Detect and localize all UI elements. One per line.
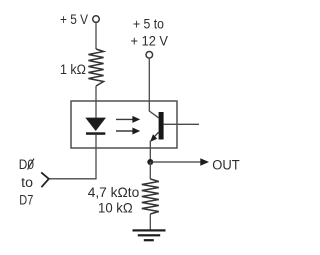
wire R1 to LED anode bbox=[95, 86, 97, 118]
wire node to R2 bbox=[149, 162, 151, 179]
phototransistor Q1 base bar bbox=[159, 112, 164, 140]
wire OUT with arrow bbox=[150, 158, 209, 165]
resistor R2 bbox=[142, 179, 159, 214]
junction OUT node bbox=[147, 159, 153, 165]
label D0 to D7 bbox=[19, 157, 34, 208]
svg-text:+ 5 to: + 5 to bbox=[133, 17, 164, 32]
svg-text:OUT: OUT bbox=[212, 157, 240, 172]
light arrow 2 bbox=[116, 128, 140, 135]
wire cathode down bbox=[95, 135, 97, 179]
wire collector from terminal bbox=[149, 58, 158, 118]
svg-text:+ 5 V: + 5 V bbox=[60, 12, 88, 27]
light arrow 1 bbox=[116, 116, 140, 123]
svg-text:+ 12 V: + 12 V bbox=[131, 34, 169, 49]
terminal +5V bbox=[93, 16, 100, 23]
svg-text:10 kΩ: 10 kΩ bbox=[98, 199, 133, 215]
svg-text:1 kΩ: 1 kΩ bbox=[60, 62, 86, 77]
label OUT bbox=[212, 157, 240, 172]
label 4,7k to 10k bbox=[88, 184, 140, 215]
optocoupler box U1 bbox=[71, 101, 177, 148]
wire terminal to R1 bbox=[95, 23, 97, 49]
wire R2 to ground bbox=[149, 214, 151, 230]
emitter with arrow bbox=[150, 132, 159, 142]
svg-text:D0: D0 bbox=[19, 157, 34, 172]
label +5 to +12V bbox=[131, 17, 169, 49]
LED D1 bbox=[85, 118, 106, 135]
wire input horizontal bbox=[49, 178, 97, 180]
svg-text:to: to bbox=[21, 175, 33, 190]
base lead (unconnected) bbox=[164, 123, 199, 125]
terminal +5..12V bbox=[146, 52, 153, 59]
wire emitter to OUT node bbox=[149, 141, 151, 163]
resistor R1 bbox=[88, 49, 103, 86]
label 1 kOhm bbox=[60, 62, 86, 77]
svg-text:D7: D7 bbox=[19, 193, 33, 208]
label +5V bbox=[60, 12, 88, 27]
input chevron D0-D7 bbox=[41, 172, 49, 187]
ground bbox=[133, 229, 166, 241]
svg-text:4,7 kΩto: 4,7 kΩto bbox=[88, 184, 140, 200]
